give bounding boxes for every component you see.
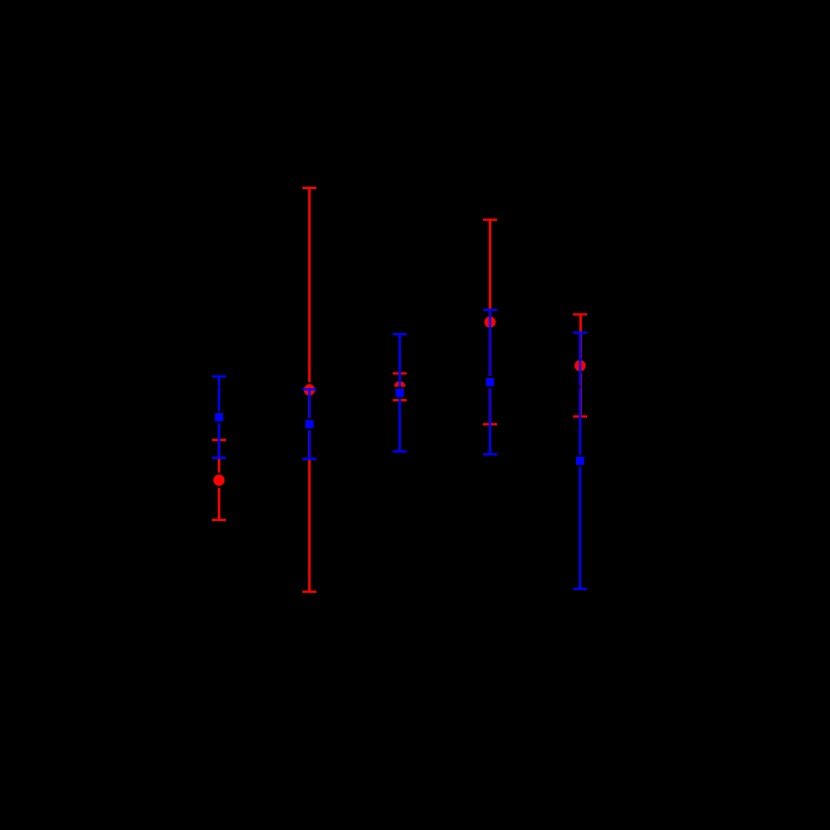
red series group 4: vertical error bar line — [489, 220, 492, 425]
red series group 3: vertical error bar line — [398, 373, 401, 400]
red series group 1: filled circle point marker — [213, 475, 224, 486]
blue series group 5: vertical error bar line — [579, 333, 581, 589]
blue series group 1: filled square point marker — [215, 413, 223, 421]
blue series group 3: bottom cap — [393, 450, 407, 452]
blue series group 1: black marker border ring — [214, 412, 224, 422]
blue series group 5: top cap — [573, 331, 587, 333]
red series group 3: black marker border ring — [393, 380, 406, 393]
red series group 1: bottom cap — [212, 519, 226, 521]
black notch mark over group 5 blue line — [579, 386, 581, 389]
red series group 2: bottom cap — [302, 591, 316, 593]
red series group 2: filled circle point marker — [304, 384, 315, 395]
black notch mark over group 1 blue line — [216, 385, 218, 388]
blue series group 2: bottom cap — [302, 458, 316, 460]
blue series group 2: vertical error bar line — [308, 389, 310, 459]
red series group 5: black marker border ring — [574, 359, 587, 372]
blue series group 5: filled square point marker — [576, 457, 584, 465]
red series group 3: top cap — [393, 372, 407, 374]
blue series group 2: filled square point marker — [305, 420, 313, 428]
blue series group 1: vertical error bar line — [218, 377, 220, 458]
red series group 1: vertical error bar line — [218, 440, 221, 520]
blue series group 1: top cap — [212, 375, 226, 377]
red series group 5: top cap — [573, 313, 587, 315]
blue series group 4: filled square point marker — [486, 378, 494, 386]
blue series group 3: filled square point marker — [396, 389, 404, 397]
red series group 2: black marker border ring — [303, 383, 316, 396]
blue series group 4: bottom cap — [483, 453, 497, 455]
red series group 2: top cap — [302, 187, 316, 189]
blue series group 3: top cap — [393, 333, 407, 335]
blue series group 1: bottom cap — [212, 457, 226, 459]
blue series group 3: black marker border ring — [395, 388, 405, 398]
red series group 5: bottom cap — [573, 415, 587, 417]
red series group 5: vertical error bar line — [579, 314, 582, 416]
blue series group 2: black marker border ring — [304, 419, 314, 429]
red series group 4: filled circle point marker — [484, 317, 495, 328]
blue series group 5: black marker border ring — [575, 456, 585, 466]
red series group 1: top cap — [212, 439, 226, 441]
blue series group 4: black marker border ring — [485, 377, 495, 387]
red series group 3: filled circle point marker — [394, 381, 405, 392]
blue series group 5: bottom cap — [573, 588, 587, 590]
blue series group 3: vertical error bar line — [399, 334, 401, 451]
red series group 4: bottom cap — [483, 423, 497, 425]
red series group 4: top cap — [483, 219, 497, 221]
blue series group 2: top cap — [302, 388, 316, 390]
red series group 2: vertical error bar line — [308, 188, 311, 592]
red series group 1: black marker border ring — [212, 474, 225, 487]
red series group 3: bottom cap — [393, 399, 407, 401]
red series group 5: filled circle point marker — [575, 360, 586, 371]
blue series group 4: top cap — [483, 309, 497, 311]
blue series group 4: vertical error bar line — [489, 310, 491, 454]
red series group 4: black marker border ring — [483, 316, 496, 329]
